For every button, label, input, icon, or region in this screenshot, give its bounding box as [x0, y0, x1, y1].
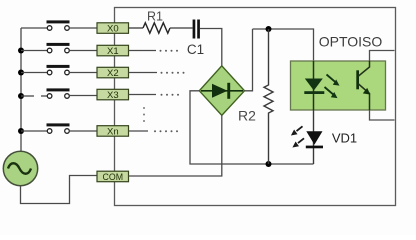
dotted wire row X2 [129, 72, 185, 74]
dotted wire row X1 [129, 50, 179, 52]
wire bridge left vertex to DC- rail [190, 91, 314, 164]
switch Sn row Xn [18, 123, 97, 134]
wire source bottom to COM [21, 176, 98, 204]
wire X0 to R1 [129, 27, 144, 29]
module outer box [115, 8, 396, 206]
wire R1 to C1 [170, 27, 193, 29]
svg-text:R2: R2 [238, 107, 256, 123]
switch S2 row X2 [18, 65, 97, 76]
terminal X0 [97, 23, 129, 35]
resistor R2 [238, 29, 273, 164]
node top junction [266, 26, 272, 32]
ellipsis between X3 and Xn [143, 107, 145, 122]
terminal Xn [97, 126, 129, 138]
svg-text:Xn: Xn [107, 127, 119, 138]
dotted wire row X3 [129, 94, 180, 96]
svg-text:C1: C1 [187, 42, 204, 57]
capacitor C1 [187, 20, 204, 58]
svg-text:R1: R1 [147, 10, 163, 24]
svg-text:OPTOISO: OPTOISO [319, 34, 383, 50]
DC+ rail [253, 29, 314, 62]
AC source G1 [3, 151, 37, 185]
terminal X2 [97, 67, 129, 79]
terminal COM [97, 171, 129, 182]
svg-text:X3: X3 [107, 90, 119, 101]
VD1 emission arrows [291, 126, 304, 147]
node bottom junction [266, 161, 272, 167]
terminal X1 [97, 45, 129, 57]
switch S0 row X0 [21, 20, 97, 30]
svg-text:X2: X2 [107, 68, 119, 79]
opto emission arrows [325, 75, 340, 99]
LED VD1 [306, 131, 357, 149]
terminal X3 [97, 89, 129, 101]
opto phototransistor Q1 [356, 51, 394, 121]
switch S1 row X1 [18, 43, 97, 54]
wire bridge bottom to COM [129, 115, 222, 176]
wire C1 to bridge top [200, 29, 222, 67]
svg-text:VD1: VD1 [332, 131, 357, 146]
resistor R1 [143, 10, 170, 34]
svg-text:COM: COM [103, 172, 124, 182]
opto LED D1 [304, 79, 324, 95]
svg-text:X1: X1 [107, 46, 119, 57]
wire bridge right vertex to DC+ rail [245, 29, 253, 91]
dotted wire row Xn [129, 130, 179, 132]
opto LED vertical wire through VD1 [313, 61, 315, 110]
bridge rectifier VC [199, 66, 244, 116]
left supply bus wire [20, 28, 22, 151]
optocoupler U1 box [291, 61, 386, 110]
svg-text:X0: X0 [107, 24, 119, 35]
switch S3 row X3 [18, 88, 97, 99]
